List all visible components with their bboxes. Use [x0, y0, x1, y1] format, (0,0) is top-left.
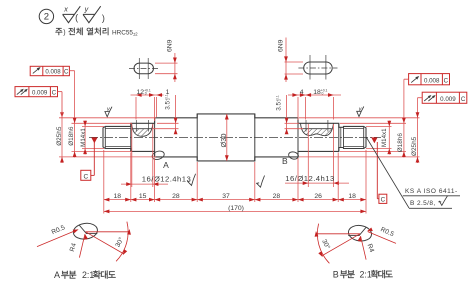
- surface symbol after text left: [186, 174, 198, 186]
- svg-text:16/Ø12.4h13: 16/Ø12.4h13: [142, 175, 191, 184]
- svg-text:Ø30: Ø30: [219, 134, 228, 148]
- leader frame to phi18 dim: [69, 70, 74, 72]
- svg-text:2: 2: [44, 12, 49, 23]
- undercut groove right: [343, 126, 345, 148]
- keyway A hatched section below slot bottom: [133, 129, 151, 137]
- svg-text:KS A ISO 6411-: KS A ISO 6411-: [405, 188, 458, 195]
- svg-text:): ): [102, 13, 105, 23]
- surface finish symbol y: [83, 6, 101, 23]
- svg-text:HRC55±2: HRC55±2: [112, 30, 138, 37]
- total runout tolerance frame 0.009 left: [15, 87, 58, 97]
- 30 degree angle dim detail A: [86, 231, 130, 233]
- shaft centerline: [89, 136, 381, 138]
- thread M14x1 left: root lines and chamfer: [104, 126, 106, 148]
- svg-text:C: C: [381, 196, 386, 203]
- datum feature triangle right (on axis): [371, 137, 377, 143]
- keyway A arc center tick 1: [135, 120, 137, 132]
- surface finish symbol x: [63, 6, 81, 23]
- datum letter box C right: [376, 142, 378, 199]
- svg-text:0.008: 0.008: [45, 69, 61, 76]
- keyway B centerline v2: [325, 55, 327, 80]
- chain extension lines: [103, 150, 105, 214]
- runout tolerance frame 0.008 right: [409, 74, 450, 85]
- detail view B ellipse: [347, 224, 372, 242]
- overall dimension (170): [104, 210, 366, 212]
- svg-text:A: A: [163, 160, 169, 170]
- svg-text:28: 28: [273, 193, 281, 200]
- keyway A top view (slot): [134, 63, 154, 74]
- svg-text:0.009: 0.009: [440, 96, 456, 103]
- keyway A arc center tick 2: [148, 120, 150, 132]
- surface symbol y on shaft top left: [105, 107, 112, 117]
- svg-text:26: 26: [314, 193, 322, 200]
- svg-text:18: 18: [114, 193, 122, 200]
- keyway B hatched section below slot bottom: [302, 129, 332, 136]
- svg-text:6N9: 6N9: [167, 39, 174, 52]
- svg-text:16/Ø12.4h13: 16/Ø12.4h13: [285, 174, 334, 183]
- keyway B arc center tick 2: [327, 120, 329, 132]
- leader R0.5 detail B: [368, 232, 396, 244]
- step faces: [130, 123, 132, 151]
- dimension 3.5+0.1 keyway A depth: [157, 122, 179, 124]
- svg-text:B 2.5/8,: B 2.5/8,: [410, 200, 436, 207]
- dimension phi18h6 right: [403, 79, 405, 157]
- keyway A broken-out section (bowl outline): [132, 123, 153, 136]
- detail A profile lines (chamfer corner): [79, 225, 97, 234]
- leader R0.5 detail A: [37, 230, 78, 247]
- svg-text:4: 4: [300, 89, 304, 96]
- keyway B centerline h: [298, 67, 337, 69]
- dimension phi25h5 left: [61, 111, 63, 163]
- leader frame to phi18 dim right: [404, 78, 409, 80]
- svg-text:M14x1: M14x1: [80, 128, 87, 147]
- svg-text:(: (: [75, 13, 78, 23]
- runout tolerance frame 0.008 left: [30, 66, 69, 75]
- svg-text:C: C: [52, 90, 57, 97]
- svg-text:Ø18h6: Ø18h6: [68, 126, 75, 146]
- dimension 16/phi12.4h13 keyway A: [131, 124, 133, 187]
- dimension 6N9 keyway A: [155, 62, 178, 64]
- keyway B arc center tick 1: [305, 120, 307, 132]
- svg-text:B: B: [333, 270, 339, 280]
- svg-text:A: A: [54, 270, 60, 280]
- svg-text:C: C: [64, 69, 69, 76]
- svg-text:28: 28: [172, 193, 180, 200]
- svg-text:C: C: [461, 96, 466, 103]
- keyway B top view (slot): [304, 62, 333, 74]
- svg-text:Ø18h6: Ø18h6: [397, 133, 404, 153]
- shaft outline: [103, 114, 366, 161]
- leader to center hole note: [367, 138, 410, 209]
- leader frame to phi25 dim right: [418, 97, 423, 99]
- surface symbol y on shaft top right: [357, 107, 364, 117]
- svg-text:C: C: [83, 173, 88, 180]
- dimension 3.5+0.1 keyway B depth: [285, 122, 300, 124]
- svg-text:15: 15: [139, 193, 147, 200]
- right extension lines: [299, 117, 420, 119]
- keyway A centerline h: [129, 67, 159, 69]
- svg-text:Ø25h5: Ø25h5: [411, 136, 418, 156]
- keyway A centerline v1: [138, 58, 140, 79]
- dimension phi30: [226, 114, 228, 161]
- keyway A centerline v2: [147, 58, 149, 79]
- detail B profile lines (chamfer corner): [348, 227, 366, 236]
- keyway B slot bottom line: [302, 128, 332, 130]
- svg-text:2:1: 2:1: [360, 270, 372, 280]
- svg-text:(170): (170): [228, 205, 244, 212]
- dimension 18+0.1 keyway B length: [306, 93, 312, 97]
- surface symbol before text right: [255, 176, 267, 188]
- leader R4 detail A: [79, 234, 85, 257]
- dimension M14x1 right: [388, 121, 390, 155]
- part number balloon 2: [39, 9, 53, 23]
- dimension 12+0.1 keyway A length: [135, 97, 137, 120]
- svg-text:B: B: [282, 156, 288, 166]
- svg-text:): ): [63, 30, 65, 37]
- keyway B centerline v1: [309, 55, 311, 80]
- dimension phi25h5 right: [417, 98, 419, 163]
- svg-text:x: x: [63, 5, 68, 14]
- thread M14x1 right: root lines and chamfer: [363, 126, 365, 148]
- dimension 4 keyway B: [297, 97, 299, 120]
- datum feature triangle left (on axis): [91, 137, 97, 143]
- detail balloon B on main view: [288, 151, 299, 160]
- datum letter box C left: [93, 142, 95, 175]
- chain dimension line 18|15|28|37|28|26|18: [104, 199, 366, 201]
- keyway A slot bottom line: [133, 128, 152, 130]
- svg-text:18: 18: [348, 193, 356, 200]
- leader frame to phi25 dim: [58, 91, 63, 93]
- dimension 6N9 keyway B: [285, 61, 304, 63]
- svg-text:Ø25h5: Ø25h5: [56, 126, 63, 146]
- dimension M14x1 left: [84, 121, 86, 155]
- left extension lines: [59, 117, 156, 119]
- note: 주) 전체 열처리 HRC55±2: [55, 28, 62, 35]
- dimension phi18h6 left: [74, 71, 76, 158]
- svg-text:0.009: 0.009: [32, 90, 48, 97]
- svg-text:C: C: [444, 77, 449, 84]
- 30 degree angle dim detail B: [316, 233, 360, 235]
- dimension 16/phi12.4h13 keyway B: [307, 124, 309, 187]
- svg-text:6N9: 6N9: [278, 39, 285, 52]
- svg-text:M14x1: M14x1: [381, 128, 388, 147]
- svg-text:0.008: 0.008: [424, 77, 440, 84]
- total runout tolerance frame 0.009 right: [422, 92, 467, 103]
- svg-text:37: 37: [222, 193, 230, 200]
- leader R4 detail B: [361, 236, 367, 259]
- svg-text:2:1: 2:1: [82, 270, 94, 280]
- detail balloon A on main view: [151, 150, 165, 161]
- keyway B broken-out section (bowl outline): [301, 123, 334, 135]
- detail view A ellipse: [72, 222, 98, 241]
